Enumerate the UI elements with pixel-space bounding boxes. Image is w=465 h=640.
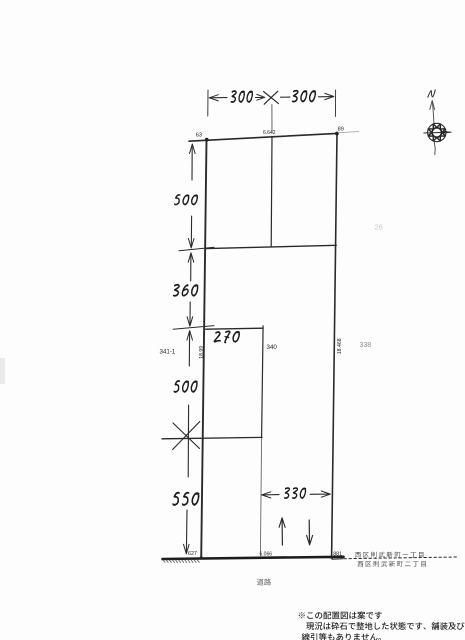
note line 3 [302, 633, 381, 640]
top dim extension from X down to boundary [271, 105, 273, 133]
plot left boundary edge [201, 140, 206, 559]
left dim label 360 [173, 284, 199, 297]
top section center divider line [270, 136, 273, 247]
entry direction up arrow [281, 520, 283, 546]
svg-text:6.642: 6.642 [263, 130, 276, 136]
dim 330 left arrow [262, 492, 271, 498]
inner parcel right line upper [262, 326, 264, 438]
inner parcel right line lower (faint) [260, 437, 261, 556]
left dim 360 up arrow [188, 253, 194, 262]
svg-text:18.99: 18.99 [199, 346, 205, 359]
top dim extension tick left [207, 90, 209, 116]
left dim tick at divider [179, 247, 214, 251]
inner parcel top line (270) [206, 328, 263, 329]
corner marker bottom-right [330, 556, 333, 559]
left dim 500a down arrow [190, 216, 192, 247]
svg-text:340: 340 [267, 344, 278, 351]
left dim 500a up arrow [190, 144, 196, 154]
left dim label 550 [172, 492, 199, 506]
faint scan smudge left edge [0, 358, 5, 384]
left dim 360 down arrow [189, 302, 191, 325]
chome boundary dotted line [332, 558, 343, 560]
top dim label 300 left [231, 90, 253, 103]
dim label 330 [284, 487, 306, 499]
svg-text:341-1: 341-1 [160, 349, 176, 356]
full-width divider line (500/360) [206, 245, 336, 248]
faint extension line from NE corner [338, 132, 359, 133]
plot right boundary edge [332, 133, 337, 557]
svg-text:627: 627 [188, 551, 197, 557]
left dim label 500b [174, 380, 198, 393]
road-side bottom boundary edge (thick) [163, 557, 344, 559]
svg-text:338: 338 [360, 342, 372, 349]
left dim 550 down arrow [185, 510, 188, 552]
top dim shaft mid-right [281, 96, 291, 98]
dim 330 right arrow [310, 493, 330, 495]
label 270 (inner parcel width) [214, 331, 241, 344]
svg-text:6.066: 6.066 [260, 551, 273, 557]
label road (douro) [257, 579, 271, 586]
left dim label 500a [174, 194, 198, 205]
top dim arrow left [209, 95, 218, 101]
label chome 2 (west 2-chome) [358, 561, 426, 567]
left dim X mark slash 1 [173, 423, 200, 449]
svg-text:26: 26 [375, 223, 383, 232]
note line 1 [299, 611, 382, 619]
note line 2 [306, 622, 464, 630]
svg-text:63: 63 [196, 133, 202, 139]
top dim label 300 right [292, 90, 316, 103]
corner marker top-right [335, 132, 339, 136]
exit direction down arrow [308, 520, 310, 543]
inner parcel bottom line with left tick extension [162, 437, 262, 438]
corner marker bottom-left [200, 556, 203, 559]
top dim arrow mid-left [256, 96, 263, 98]
top dim arrow right [319, 96, 333, 98]
label chome 1 (west 1-chome) [355, 552, 423, 558]
top dim extension tick right [334, 90, 336, 117]
corner marker top-left [205, 138, 209, 142]
svg-text:881: 881 [333, 551, 342, 557]
road edge hatching [163, 560, 199, 563]
left dim 500b shaft through X [187, 405, 189, 477]
svg-text:18.468: 18.468 [337, 338, 343, 354]
plot top boundary edge [189, 133, 337, 141]
top dim mid X tick [264, 92, 279, 104]
compass rose with north arrow [424, 89, 452, 155]
left dim X mark slash 2 [173, 422, 200, 450]
left dim tick at 270 line [173, 326, 214, 330]
svg-text:89: 89 [338, 126, 344, 132]
left dim 500b up arrow [187, 331, 193, 341]
